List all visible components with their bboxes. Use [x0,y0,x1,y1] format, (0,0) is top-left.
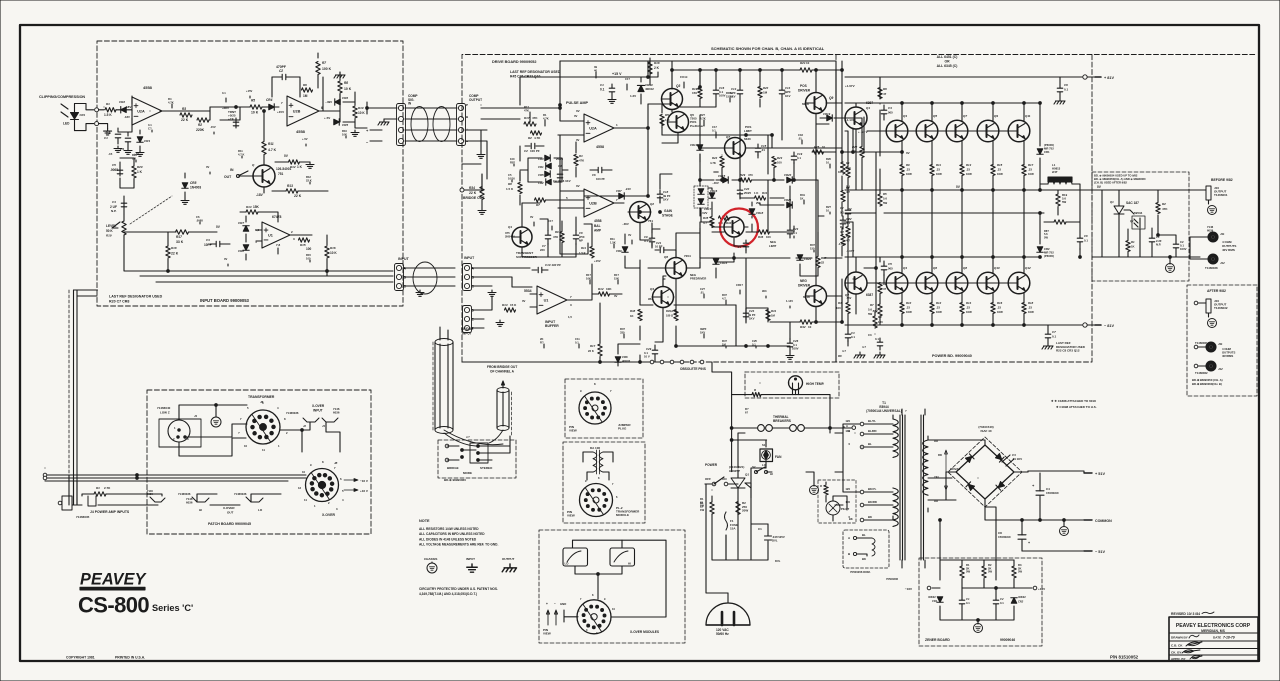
svg-text:Q10: Q10 [994,266,1000,270]
svg-text:5W: 5W [966,570,970,574]
svg-text:0.1: 0.1 [966,601,970,605]
transistor Q6 output bottom [916,272,938,294]
svg-text:100: 100 [845,500,850,504]
svg-text:J12: J12 [1218,367,1223,371]
wire column bottom Q6 [931,293,933,325]
svg-text:5534: 5534 [524,289,532,293]
svg-text:Q9: Q9 [829,96,833,100]
svg-text:-15: -15 [108,152,113,156]
capacitor C6 100 PF [598,167,602,173]
svg-text:R23: R23 [777,156,783,160]
svg-text:10PF: 10PF [204,243,212,247]
svg-text:+1.67V: +1.67V [845,84,855,88]
dashed pointer line [130,196,172,224]
obsolete pins row [650,360,654,364]
resistor R2 4.7K [531,131,542,135]
svg-text:INPUT: INPUT [466,557,475,561]
svg-text:OUTPUT: OUTPUT [502,557,515,561]
svg-text:220: 220 [540,248,545,252]
svg-text:0.1: 0.1 [1064,88,1069,92]
svg-text:4.7: 4.7 [840,230,844,234]
collector bus bottom [845,256,1040,258]
svg-text:1M: 1M [771,314,776,318]
svg-text:X-OVER: X-OVER [312,404,325,408]
jack J10 output before [1206,186,1211,200]
svg-text:R29: R29 [740,173,746,177]
wires bridge to rails [946,440,985,445]
svg-text:1 K: 1 K [137,170,143,174]
svg-text:R3: R3 [182,107,186,111]
arrows +16V -16V [344,479,358,482]
svg-text:R1: R1 [840,165,844,169]
resistor R2 2K 5W zener [982,566,986,578]
capacitor C8 15000/90 [1018,535,1026,539]
svg-text:BUFFER: BUFFER [545,324,559,328]
resistor R17 33K [176,230,189,234]
svg-text:47K: 47K [1162,207,1168,211]
svg-text:47K: 47K [524,108,529,112]
svg-text:10 V: 10 V [644,355,650,359]
+81V rail [845,76,1082,78]
x-over socket circle [306,469,339,502]
svg-text:100V: 100V [1180,247,1187,251]
ground circle output net [1166,264,1175,273]
svg-text:T1466028: T1466028 [1205,266,1218,270]
resistor R2 47K output net [1156,203,1160,214]
svg-text:+15 V: +15 V [612,72,622,76]
svg-text:1W: 1W [700,508,705,512]
extra input board wire stubs [152,96,250,132]
jack J11 dark before [1208,232,1218,242]
svg-text:0.1: 0.1 [222,91,226,95]
svg-text:CR17: CR17 [704,207,712,211]
wires inside tube 1 [440,327,448,428]
svg-text:✷ ✷ C1888 ATTACHED TO 601: ✷ ✷ C1888 ATTACHED TO 6018 [1051,399,1096,403]
diode CR16 in box [694,186,708,208]
FET Q1 375 transient suppressor [512,227,532,247]
svg-text:47K: 47K [553,235,558,239]
svg-text:1KV: 1KV [663,198,669,202]
svg-text:+15V: +15V [246,89,253,93]
svg-text:APPR. BY: APPR. BY [1171,657,1187,661]
capacitor C9 0.1 [649,238,655,242]
resistor R17 47K drive [524,122,536,126]
diode CR8 1N4003 [182,183,188,188]
svg-text:DA 106: DA 106 [590,446,600,450]
svg-text:470PF: 470PF [276,65,286,69]
ground lug at psu [810,486,819,495]
transistor Q2 6387 power [845,272,867,294]
resistor R5 5.6 5W [878,194,882,206]
wire column top Q3 [901,141,903,257]
wires xover out jacks [197,494,281,505]
svg-text:FAN: FAN [775,455,782,459]
svg-text:R8: R8 [344,81,348,85]
transistor Q 6330 [725,138,746,159]
pilot lamp circle [826,501,840,515]
jumper block 70500206 [843,530,889,568]
svg-text:Q8: Q8 [963,266,967,270]
input board outline 99009053 [97,41,403,306]
svg-text:DVL: DVL [775,559,781,563]
svg-text:C2: C2 [524,149,528,153]
op-amp U1 67478 [262,222,290,248]
resistor R22 4.7 [860,147,864,158]
svg-text:10W: 10W [936,310,942,314]
svg-text:OUT: OUT [224,175,232,179]
svg-text:R12: R12 [290,165,296,169]
capacitor C6 0.1 top right [1057,88,1063,92]
svg-text:IN: IN [230,168,234,172]
svg-text:5W: 5W [1044,235,1048,239]
svg-text:+: + [546,602,548,606]
svg-text:40K02: 40K02 [1018,595,1026,599]
svg-text:1,5: 1,5 [568,315,572,319]
svg-text:R1: R1 [106,102,110,106]
svg-text:5W: 5W [883,201,888,205]
resistor R pilot [824,485,828,495]
svg-text:U2A: U2A [137,109,145,113]
svg-text:X-OVER: X-OVER [322,513,336,517]
transistor Q5 output top [916,120,938,142]
resistor R29 470 [741,178,752,182]
svg-text:ISAF 40: ISAF 40 [980,429,991,433]
resistor R13 15K [505,308,516,312]
svg-text:(P6000): (P6000) [1044,254,1054,258]
resistor R6 1M [302,88,313,92]
ground near U2A [114,146,122,152]
svg-text:10W: 10W [1028,310,1034,314]
svg-text:70500206 DOM.: 70500206 DOM. [850,570,871,574]
capacitor C2 100PF [531,143,535,149]
svg-text:HI: HI [628,562,631,566]
svg-text:R8?: R8? [510,160,515,164]
wire LED bottom loop [75,124,94,131]
long bus wires into patch board [45,475,306,481]
svg-text:10 K: 10 K [251,111,259,115]
resistor R5 1K [660,115,664,126]
wires x-over input to socket [302,422,340,452]
svg-text:.005: .005 [887,111,893,115]
svg-text:INPUT BOARD 99009053: INPUT BOARD 99009053 [200,298,250,303]
svg-text:22 K: 22 K [181,118,189,122]
wires pulse amp [558,104,648,135]
ground right of LED [99,124,108,129]
svg-text:CR13: CR13 [690,143,698,147]
primary taps bottom [860,490,864,494]
svg-text:R2: R2 [1162,202,1166,206]
svg-text:1KV: 1KV [700,330,705,334]
resistor R16 10K vertical [325,246,329,258]
resistor R13 .33 10W [960,165,964,176]
svg-text:CR9: CR9 [616,249,622,253]
svg-text:CR3: CR3 [144,139,150,143]
svg-text:751: 751 [278,172,284,176]
wire column top Q5 [931,141,933,257]
svg-text:Q11: Q11 [1025,114,1031,118]
svg-text:C5: C5 [112,163,116,167]
svg-text:DRIVER: DRIVER [798,284,811,288]
svg-text:+16V: +16V [1038,587,1045,591]
svg-text:MODE: MODE [463,471,472,475]
svg-text:.01: .01 [761,148,765,152]
resistor R37 22 [816,257,820,268]
svg-text:-1.07V: -1.07V [838,242,846,246]
svg-text:40K02: 40K02 [928,595,936,599]
svg-text:CR7: CR7 [616,189,622,193]
svg-text:100 PF: 100 PF [596,177,605,181]
resistor R42 10 [800,320,812,324]
svg-text:PREDRIVER: PREDRIVER [690,276,706,280]
svg-text:R35: R35 [703,216,709,220]
ground circle common [1060,527,1069,536]
svg-text:C4: C4 [112,200,116,204]
svg-text:BRIDGE: BRIDGE [461,327,473,331]
svg-text:PEAVEY: PEAVEY [80,571,148,589]
svg-text:OFF: OFF [705,477,711,481]
resistor R1 2.7K patch [94,492,106,496]
svg-text:22 K: 22 K [469,191,477,195]
svg-text:ALL DIODES IN 4148 UNLESS: ALL DIODES IN 4148 UNLESS NOTED [419,537,477,541]
bottom wire of output net [1092,256,1200,258]
pl2 transformer symbol [593,452,597,472]
resistor R33 4.7K vertical [714,171,718,173]
svg-text:P/N 81510052: P/N 81510052 [1110,655,1139,660]
svg-text:ALL 6451 (C): ALL 6451 (C) [937,55,958,59]
capacitor C3 10PF [216,241,220,247]
svg-text:C3: C3 [868,333,872,337]
svg-text:OF CHANNEL A: OF CHANNEL A [490,370,515,374]
svg-text:5W: 5W [1062,200,1067,204]
svg-text:10W: 10W [997,310,1003,314]
diode row CR1 [546,163,551,169]
fan box [760,449,773,462]
svg-text:LED: LED [63,122,70,126]
capacitor C4 10/16V [557,174,563,178]
svg-text:Q6: Q6 [664,255,668,259]
svg-text:LO: LO [258,508,263,512]
svg-text:50/60 Hz: 50/60 Hz [716,632,729,636]
svg-text:+16 V: +16 V [360,489,368,493]
transistor Q3 drive [662,89,683,110]
lo xover out jack [246,497,263,502]
svg-text:NOTE: NOTE [419,519,430,523]
resistor R22 4.7K [720,157,724,168]
bridge diode 1 [965,454,974,463]
svg-text:CR1: CR1 [538,165,544,169]
svg-text:5W: 5W [1018,570,1022,574]
wires U2A supply decoupling [118,96,132,132]
svg-text:C2: C2 [840,206,844,210]
svg-text:40VRMS: 40VRMS [1222,354,1233,358]
capacitor C3 0.1 bottom left [845,334,851,338]
resistor R8 10K vertical [338,81,342,93]
svg-text:ALL 6345 (C): ALL 6345 (C) [937,64,958,68]
svg-text:22: 22 [821,261,825,265]
svg-text:CR5: CR5 [538,173,544,177]
capacitor C8 2/50 [573,235,579,239]
svg-text:0V: 0V [848,217,852,221]
svg-text:C6: C6 [1064,83,1068,87]
resistor R2 250 20W [736,502,740,515]
svg-text:R6: R6 [883,87,887,91]
resistor R20 1K vertical [132,166,136,178]
svg-text:CR1: CR1 [80,113,86,117]
svg-text:CIRCUITRY PROTECTED UNDER U: CIRCUITRY PROTECTED UNDER U.S. PATENT NO… [419,587,498,591]
svg-text:71466036: 71466036 [286,411,299,415]
svg-text:20W: 20W [742,509,748,513]
patch jack symbols [88,496,96,506]
transistor Q2 761 gain stage [630,202,651,223]
svg-text:50 K: 50 K [106,229,113,233]
resistor R7 5.6 5W bottom [878,304,882,316]
svg-text:100V: 100V [719,94,726,98]
svg-text:+15V: +15V [594,259,601,263]
diode CR15 [723,177,728,183]
wires AC primary [705,484,728,593]
svg-text:1.5 K: 1.5 K [104,113,112,117]
svg-text:R16: R16 [330,246,336,250]
top bus wires [560,60,836,62]
thermal breaker 2 [790,425,797,432]
svg-text:22 K: 22 K [306,178,312,182]
svg-text:71466036: 71466036 [178,492,191,496]
transistor Q10 output bottom [977,272,999,294]
svg-text:CR1: CR1 [932,599,938,603]
node circle on board edge bottom [95,122,99,126]
wire verticals thermal area [732,395,830,472]
resistor R3 2K 5W zener [1012,566,1016,578]
svg-text:OBSOLETE PINS: OBSOLETE PINS [680,367,706,371]
transistor Q4 953 [653,287,674,308]
bridge input connector [463,306,472,333]
title block rows [1169,633,1258,655]
second mid rail [845,212,1044,214]
resistor R18 22K vertical [166,246,170,258]
0V mid rail [845,189,1092,191]
svg-text:Series 'C': Series 'C' [152,603,193,613]
svg-text:R32: R32 [726,221,732,225]
svg-text:COMMON: COMMON [1095,519,1112,523]
svg-text:R6: R6 [303,83,307,87]
svg-text:R3: R3 [579,154,583,158]
resistor R12 .33 10W [930,303,934,314]
svg-text:100: 100 [306,247,312,251]
svg-text:CR8: CR8 [238,249,244,253]
svg-text:R5: R5 [251,99,255,103]
red marking circle [720,209,758,247]
resistor R4 47K vertical [574,155,578,166]
pl2 socket [580,484,613,517]
svg-text:R7: R7 [536,203,540,207]
svg-text:100: 100 [845,429,850,433]
svg-text:R18: R18 [1028,301,1034,305]
svg-text:4.7: 4.7 [842,349,846,353]
diode CR7 [243,226,249,231]
transistor Q8 output bottom [946,272,968,294]
svg-text:R45 C26 CR22 Q10: R45 C26 CR22 Q10 [510,74,540,78]
svg-text:J1: J1 [194,414,198,418]
svg-text:T1466062: T1466062 [1195,371,1208,375]
zener bottom rail [940,606,1014,620]
chassis ground at comp B pin [384,118,397,120]
psu feed wire from drive board [712,362,732,395]
resistor R41 1M vertical [766,310,770,321]
svg-text:1 K: 1 K [754,191,758,195]
wires level network [120,158,134,188]
low z circle J1 [168,420,190,442]
svg-text:CR1: CR1 [1044,150,1050,154]
svg-text:R22 C8 CR3 Q12: R22 C8 CR3 Q12 [1056,349,1080,353]
svg-text:+: + [466,128,468,132]
svg-text:0.1: 0.1 [840,211,844,215]
svg-text:1.2V: 1.2V [630,94,636,98]
svg-text:R11: R11 [268,142,274,146]
svg-text:22 K: 22 K [171,252,179,256]
primary taps top [860,422,864,426]
svg-text:-24V: -24V [625,187,631,191]
svg-text:−: − [554,602,556,606]
base bus top row [867,130,1008,132]
svg-text:10: 10 [244,444,248,448]
svg-text:1KV: 1KV [785,94,791,98]
ground circle zener [974,624,983,633]
svg-text:R16: R16 [997,301,1003,305]
svg-text:(CH. B) USED AFTER 9/82: (CH. B) USED AFTER 9/82 [1094,180,1127,184]
svg-text:47K: 47K [579,159,584,163]
title block box [1169,617,1258,661]
wire bridge mode to right [488,436,510,453]
svg-text:Q7: Q7 [963,114,967,118]
svg-text:0V: 0V [576,184,580,188]
svg-text:R8: R8 [508,182,512,186]
svg-text:OUTPUT: OUTPUT [469,98,482,102]
svg-text:SCHEMATIC SHOWN FOR CHAN. B: SCHEMATIC SHOWN FOR CHAN. B, CHAN. A IS … [711,46,825,51]
zener board rails [939,520,941,580]
svg-text:15K: 15K [253,205,260,209]
svg-text:R9: R9 [906,163,910,167]
svg-text:0V: 0V [206,165,209,169]
extra psu wire stubs [760,382,789,384]
diode CR1 MR752 [1037,149,1043,154]
capacitor C2 0.1 100V [1173,244,1179,248]
diode CR6 40K02 [615,357,621,362]
svg-text:N.P.: N.P. [111,209,117,213]
svg-text:6036: 6036 [186,501,193,505]
svg-text:CR2: CR2 [1018,600,1024,604]
svg-text:C2: C2 [279,69,283,73]
svg-text:ALL RESISTORS 1/4W UNLESS: ALL RESISTORS 1/4W UNLESS NOTED [419,527,479,531]
svg-text:-18V: -18V [124,115,130,119]
svg-text:67478: 67478 [272,215,282,219]
transistor Q4 output bottom [886,272,908,294]
svg-text:.005: .005 [887,267,893,271]
svg-text:C1: C1 [600,83,604,87]
svg-text:R14: R14 [966,301,972,305]
resistor R1 1K output net [1126,241,1130,252]
resistor R8 1.5K vertical [518,183,522,194]
capacitor C1 .047 125V DVL [765,536,772,540]
resistor at high temp [752,392,761,396]
svg-text:J11: J11 [1220,232,1225,236]
transformer socket circle [246,410,280,444]
svg-text:TRANSFORMER: TRANSFORMER [248,395,275,399]
svg-text:0.1: 0.1 [600,88,605,92]
svg-text:150: 150 [692,91,697,95]
svg-text:0.1: 0.1 [1000,601,1004,605]
svg-text:CLIPPING/COMPRESSION: CLIPPING/COMPRESSION [39,95,85,99]
svg-text:Q12: Q12 [1025,266,1031,270]
